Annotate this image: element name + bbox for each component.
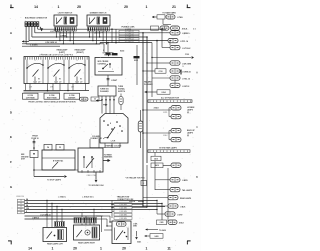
wire hazard feed (136, 45, 138, 85)
wire hazard capsule top (140, 110, 142, 121)
connector row Q (157, 220, 185, 225)
wires into lamp c (left steps) (96, 216, 112, 230)
svg-text:C 1: C 1 (193, 28, 196, 30)
svg-text:G 1156: G 1156 (28, 95, 34, 97)
svg-text:(RIGHT): (RIGHT) (76, 52, 84, 54)
svg-text:CONNECTOR: CONNECTOR (90, 138, 102, 140)
wire right bus 3 (151, 43, 153, 97)
svg-text:.8 GRY 8: .8 GRY 8 (182, 86, 189, 88)
grid number 1 (bottom) (52, 247, 54, 251)
svg-text:L N R: L N R (111, 141, 116, 143)
wire backup feed (142, 132, 171, 134)
svg-text:.8 BRN 9: .8 BRN 9 (32, 217, 39, 219)
caption turn switch (105, 145, 122, 147)
svg-text:.8 DK GRN 24: .8 DK GRN 24 (45, 41, 57, 44)
connector row B (151, 26, 196, 30)
lamp backup 1 (163, 128, 181, 139)
label hazard flasher (144, 80, 153, 85)
row letter B (right edge) (196, 175, 198, 179)
svg-text:18: 18 (26, 202, 28, 204)
caption arrow (103, 104, 108, 106)
lamp marker (64, 93, 80, 99)
connector row D (168, 38, 188, 43)
svg-text:S202: S202 (120, 51, 124, 53)
connector row L (155, 178, 188, 183)
corner mark bottom-left (8, 241, 12, 245)
svg-text:.8 T: .8 T (29, 87, 32, 89)
fuse block tab 2 (56, 144, 64, 150)
svg-text:14: 14 (28, 247, 32, 251)
svg-text:.8 PPL 14: .8 PPL 14 (180, 40, 188, 43)
connector row G (147, 69, 191, 75)
wire row R (146, 228, 166, 231)
svg-text:.8 BLK 150: .8 BLK 150 (16, 196, 24, 198)
svg-text:14: 14 (34, 5, 38, 9)
svg-text:.8 BLK: .8 BLK (153, 108, 159, 110)
svg-text:FRONT LIGHTING: SWITCH DETAILS: FRONT LIGHTING: SWITCH DETAILS SHOWN IN … (28, 101, 76, 104)
wire drop to splice 1 (103, 44, 105, 52)
bus wire 1 (bottom) (25, 198, 158, 201)
lamp backup 2 (169, 137, 181, 141)
flasher F2 hazard capsule (138, 121, 143, 132)
module M1 (fuse junction) (30, 150, 75, 170)
splice S203 (134, 56, 140, 62)
connector row P (157, 201, 183, 217)
svg-text:G 1156: G 1156 (49, 95, 55, 97)
svg-text:.8 T: .8 T (71, 87, 74, 89)
row letter B (left edge) (10, 57, 13, 61)
lamp license 2 (169, 114, 181, 118)
caption under headlamp box (28, 101, 76, 104)
connector row F (157, 61, 192, 68)
grid number 20 (bottom right) (122, 247, 126, 251)
splice bar S302 (148, 147, 190, 153)
caption rear left lamp (47, 243, 64, 246)
svg-text:.8 BLK .8 YEL: .8 BLK .8 YEL (86, 175, 96, 177)
connector row C (160, 31, 189, 36)
arrow output right (103, 153, 113, 162)
row letter A (right edge) (196, 71, 198, 75)
svg-text:24: 24 (26, 204, 28, 207)
wire dimmer switch pins (89, 31, 107, 45)
wire mid drop 2 (115, 29, 117, 43)
wire mid drop 1 (111, 28, 113, 42)
wire right lower bus (155, 161, 168, 222)
label row above box (39, 53, 73, 56)
svg-text:11: 11 (167, 247, 171, 251)
svg-text:STEERING COLUMN: STEERING COLUMN (105, 145, 122, 147)
caption rear right lamp (78, 242, 96, 245)
svg-text:1: 1 (100, 247, 102, 251)
headlamp cell 2 in J1 (47, 60, 65, 89)
svg-text:.8 BLK: .8 BLK (179, 223, 185, 225)
svg-text:94: 94 (26, 198, 28, 201)
junction box right-mid (141, 181, 147, 186)
pin labels bottom of J1 (33, 82, 79, 84)
wires turnbox to M2 (90, 143, 120, 148)
pin labels under M2 (86, 175, 96, 177)
connector row I (170, 80, 189, 88)
wire jog y63 (146, 62, 157, 63)
svg-text:HARNESS: HARNESS (104, 156, 113, 159)
svg-text:x .8 BLK 150 x: x .8 BLK 150 x (82, 196, 94, 198)
svg-text:20: 20 (73, 247, 77, 251)
wire bus jog (100, 43, 152, 44)
splice S201 (106, 53, 111, 57)
wires into trailer strip (111, 201, 120, 219)
svg-text:TAIL LAMPS: TAIL LAMPS (182, 189, 193, 192)
svg-text:1 2 3: 1 2 3 (75, 82, 79, 84)
wires trailer right (132, 165, 147, 208)
svg-text:150: 150 (26, 208, 29, 210)
svg-text:x .8 BLK x: x .8 BLK x (58, 196, 66, 198)
svg-text:TO MAIN HARN: TO MAIN HARN (162, 11, 176, 14)
lamp assembly rear right (74, 225, 100, 240)
svg-text:G420: G420 (154, 235, 158, 238)
row letter A (left edge) (10, 31, 13, 35)
connector C100 bulkhead (25, 16, 48, 26)
wire bus to page left A (22, 40, 29, 42)
switch S4 turn signal switch (100, 114, 128, 144)
wires flasher pins (96, 96, 115, 114)
svg-text:.8 TAN: .8 TAN (177, 16, 183, 19)
wire label stack (fuse block feeds) (119, 27, 139, 43)
connector row E (169, 40, 191, 50)
svg-text:.8 BLK: .8 BLK (180, 206, 186, 208)
diode capsule (flasher aux) (119, 94, 123, 111)
wire light switch pins (56, 31, 74, 45)
svg-text:SIGNAL: SIGNAL (118, 87, 126, 90)
svg-text:.8 PPL: .8 PPL (163, 112, 168, 114)
pins bottom of J1 (26, 84, 86, 91)
grid number 20 (bottom) (73, 247, 77, 251)
wire stop sw to lower box (107, 75, 118, 86)
headlamp cell 1 in J1 (26, 60, 44, 89)
pin ticks top of J1 (26, 57, 88, 60)
lamp assembly rear left (43, 228, 67, 242)
wires drop to rear lamp L (46, 200, 62, 228)
svg-text:.8 DK GRN: .8 DK GRN (119, 211, 127, 213)
svg-text:B: B (196, 175, 198, 179)
svg-text:LO HI B P T: LO HI B P T (94, 32, 104, 34)
bus wire 6 (bottom) (25, 213, 104, 216)
label license lamps (187, 107, 195, 114)
wire pin5 to bus (38, 26, 166, 29)
lamp left park (23, 93, 39, 99)
wire pin4 to bus (35, 26, 160, 32)
svg-text:LIGHT SWITCH: LIGHT SWITCH (58, 13, 73, 15)
svg-text:G421: G421 (137, 241, 141, 244)
svg-text:C2: C2 (94, 99, 96, 101)
svg-text:B: B (143, 183, 144, 185)
label left of mid cluster (21, 154, 29, 161)
svg-text:.8: .8 (76, 60, 77, 62)
svg-text:9: 9 (26, 211, 27, 213)
svg-text:F4: F4 (47, 146, 49, 149)
svg-text:.8 WHT: .8 WHT (111, 80, 118, 82)
svg-text:.8 DK GRN: .8 DK GRN (182, 63, 192, 65)
svg-text:SWITCH: SWITCH (104, 55, 112, 57)
wire license feed (142, 108, 171, 111)
label right of box3 (133, 223, 138, 227)
svg-text:W/ STD REAR LAMPS: W/ STD REAR LAMPS (159, 147, 177, 150)
connector row A (top) (152, 15, 183, 19)
svg-text:1: 1 (146, 247, 148, 251)
wire label cluster (dk grn) (129, 199, 144, 203)
wire to C100 right arrow (151, 54, 194, 59)
lamp assembly center (trailer) (112, 221, 131, 244)
wire to right arrow (34, 175, 67, 181)
svg-text:C3: C3 (20, 200, 22, 202)
svg-text:G 1156: G 1156 (69, 95, 75, 97)
grid number 11 (bottom far right) (167, 247, 171, 251)
bus wire 4 (bottom) (25, 208, 158, 210)
grid number 20 (top) (77, 5, 81, 9)
connector row K (151, 163, 181, 168)
svg-text:S410: S410 (155, 164, 159, 167)
svg-text:1 2 3: 1 2 3 (33, 82, 37, 84)
lamp license 1 (163, 106, 181, 117)
svg-text:C3: C3 (20, 206, 22, 208)
row letter F (left edge) (10, 160, 12, 164)
module M2 (signal contacts) (78, 148, 103, 173)
svg-text:24: 24 (182, 66, 184, 68)
label pair above light box (57, 49, 86, 54)
svg-text:BULKHEAD CONNECTOR: BULKHEAD CONNECTOR (25, 16, 48, 19)
connector row H (152, 76, 190, 81)
connector row S (145, 234, 164, 239)
bus wire 5 (bottom) (25, 211, 113, 213)
connector hatch above R lamp 2 (84, 218, 97, 224)
svg-text:ALL W/ TRAILER TOW: ALL W/ TRAILER TOW (161, 97, 179, 100)
wire pin3 to bus (32, 26, 147, 37)
svg-text:.8: .8 (34, 60, 35, 62)
junction box (marker feed) (91, 97, 99, 101)
svg-text:F5: F5 (59, 147, 61, 149)
svg-text:REAR LAMPS LEFT: REAR LAMPS LEFT (47, 243, 64, 246)
label backup lamps (187, 129, 196, 137)
wire label LT GRN (top fan) (50, 31, 60, 33)
svg-text:.8 DK GRN: .8 DK GRN (119, 204, 127, 206)
grid number 20 (top center) (124, 5, 128, 9)
wire jog y110b (146, 116, 148, 118)
svg-text:20: 20 (122, 247, 126, 251)
terminal strip trailer (114, 203, 132, 220)
svg-text:REAR LAMPS RIGHT: REAR LAMPS RIGHT (78, 242, 96, 245)
fuse block tab 1 (44, 144, 52, 150)
svg-text:CONTROL: CONTROL (98, 63, 108, 65)
bus wire 3 (bottom) (25, 204, 166, 207)
wire fuse to mid box (33, 139, 36, 150)
svg-text:.8 LT BLU: .8 LT BLU (182, 48, 191, 50)
wire right of box2 (96, 216, 102, 232)
wires drop to rear lamp R (82, 209, 95, 225)
connector row M (155, 187, 193, 192)
wire pin1 to bus (26, 26, 100, 44)
svg-text:C: C (196, 125, 198, 129)
svg-text:1: 1 (146, 5, 148, 9)
svg-text:TO STOP LAMPS: TO STOP LAMPS (47, 178, 62, 181)
svg-text:1: 1 (58, 5, 60, 9)
row letter G (left edge) (10, 185, 13, 189)
svg-text:C410: C410 (154, 157, 158, 160)
connector row J (145, 90, 171, 94)
corner mark top-left (10, 5, 14, 9)
wires M2 top (90, 139, 99, 148)
wire under cluster (33, 158, 35, 177)
svg-text:FUSE 10: FUSE 10 (31, 138, 38, 140)
inline connector (park feed) (80, 97, 89, 101)
svg-text:.8 T: .8 T (50, 87, 53, 89)
connector hatch above R lamp 1 (74, 218, 81, 224)
svg-text:* W/ TRAILER TOW PKG: * W/ TRAILER TOW PKG (125, 177, 145, 180)
label top right (162, 11, 176, 14)
wire bus left C (22, 45, 60, 47)
row letter E (left edge) (10, 135, 12, 139)
bus under J1 (24, 90, 90, 92)
svg-text:TO G420: TO G420 (159, 229, 166, 232)
connector row N (143, 195, 192, 200)
wire drop to splice 2 (107, 42, 109, 52)
grid number 1 (bottom center) (100, 247, 102, 251)
grid number 21 (top far right) (172, 5, 176, 9)
lamp right park (44, 93, 60, 99)
wire right bus 5 (161, 28, 170, 47)
grid number 14 (top) (34, 5, 38, 9)
row letter C (left edge) (10, 86, 13, 90)
connector row O (142, 204, 186, 209)
svg-text:G104: G104 (161, 91, 165, 94)
label above mid cluster (31, 136, 38, 140)
connector block J1 (lamp harness) (24, 57, 89, 84)
svg-text:CONNECTOR: CONNECTOR (117, 199, 129, 201)
grid number 1 (top) (58, 5, 60, 9)
svg-text:.8 GRY: .8 GRY (177, 214, 183, 216)
bus wire 2 (bottom) (25, 202, 163, 220)
svg-text:F: F (10, 160, 12, 164)
svg-text:20: 20 (124, 5, 128, 9)
svg-text:.8 DK GRN: .8 DK GRN (119, 214, 127, 216)
wire jog y71 (142, 70, 147, 71)
label above tags (16, 196, 24, 198)
svg-text:.8 BLK: .8 BLK (163, 135, 168, 137)
bus wire 7 (bottom) (25, 217, 97, 219)
svg-text:x .8 BRN: x .8 BRN (30, 45, 38, 47)
corner mark top-right (187, 5, 191, 9)
row letter D (left edge) (10, 111, 13, 115)
wire right bus 1 (142, 32, 144, 206)
svg-text:C3: C3 (20, 212, 22, 214)
corner mark bottom-right (187, 241, 191, 245)
splice S202 (112, 51, 124, 56)
fusible link arrow (40, 27, 43, 32)
svg-text:21: 21 (172, 5, 176, 9)
wire label PNK (top fan) (60, 35, 67, 37)
grid number 1 (bottom right) (146, 247, 148, 251)
switch S3 stop lamp switch (95, 51, 122, 75)
connector hatch above L lamp (55, 222, 65, 227)
wire hazard capsule bottom (140, 132, 142, 148)
svg-text:20: 20 (77, 5, 81, 9)
wire right bus 2 (146, 36, 148, 163)
bus under cluster (34, 169, 78, 171)
svg-text:REAR LAMPS: REAR LAMPS (180, 197, 192, 200)
svg-text:S203: S203 (134, 60, 138, 62)
wire M2 down arrow (89, 172, 104, 187)
wire tags (left stack) (18, 199, 25, 214)
headlamp cell 3 in J1 (68, 60, 86, 89)
svg-text:.8 DK GRN: .8 DK GRN (119, 218, 127, 220)
splice bar S301 (148, 97, 192, 103)
svg-text:SWITCH: SWITCH (118, 91, 126, 93)
wire box3 down arrow (135, 231, 141, 244)
switch S2 dimmer switch (87, 13, 110, 35)
svg-text:.8 BRN 9: .8 BRN 9 (182, 33, 189, 35)
svg-text:TO GROUND G104: TO GROUND G104 (89, 184, 104, 187)
grid number 1 (top right) (146, 5, 148, 9)
svg-text:GRN 24: GRN 24 (129, 200, 135, 203)
label trailer tow (117, 196, 130, 201)
grid number 14 (bottom) (28, 247, 32, 251)
wire row A drop (163, 19, 171, 24)
connector C410 (151, 152, 161, 160)
svg-text:.8 LT GRN 24: .8 LT GRN 24 (124, 41, 133, 43)
svg-text:.8: .8 (55, 60, 56, 62)
label above M2 (90, 136, 102, 140)
wire label x pair 2 (58, 196, 66, 198)
wire right bus 4 (156, 40, 158, 69)
decorative scan speckle (not labelled further) (3, 3, 196, 248)
wire pin2 to bus (29, 26, 168, 40)
svg-text:.8 DK GRN: .8 DK GRN (119, 207, 127, 209)
svg-text:C100: C100 (185, 54, 189, 56)
svg-text:C210: C210 (158, 71, 162, 73)
svg-text:1: 1 (52, 247, 54, 251)
svg-text:1 2 3: 1 2 3 (54, 82, 58, 84)
note w/ trailer tow (125, 177, 145, 180)
svg-text:A: A (196, 71, 198, 75)
svg-text:.8 ORN 24: .8 ORN 24 (182, 70, 191, 73)
flasher F1 turn signal (98, 86, 126, 96)
switch S1 light switch (54, 13, 77, 35)
svg-text:.8 YEL 15: .8 YEL 15 (182, 78, 190, 80)
row letter C (right edge) (196, 125, 198, 129)
svg-text:.8 LT GRN 24: .8 LT GRN 24 (40, 213, 50, 216)
svg-text:C3: C3 (20, 203, 22, 205)
wire bus left B (22, 41, 104, 44)
svg-text:.8 BLK: .8 BLK (182, 28, 188, 30)
wire label x pair (82, 196, 94, 198)
svg-text:DIMMER SWITCH: DIMMER SWITCH (90, 13, 107, 15)
wire label above stop box (103, 50, 105, 52)
svg-text:FLASHER: FLASHER (100, 90, 109, 93)
